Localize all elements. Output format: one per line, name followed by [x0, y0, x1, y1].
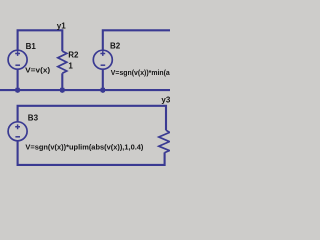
B2 minus sign	[101, 64, 106, 66]
svg-text:y1: y1	[57, 21, 66, 30]
bv source B2 circle	[93, 50, 112, 69]
wire: R2 bottom stub	[61, 73, 63, 93]
B2 plus sign	[100, 51, 105, 56]
wire: B1 bottom stub	[17, 69, 19, 93]
B1 plus sign	[15, 51, 20, 56]
wire: ground rail	[0, 89, 172, 91]
B3 minus sign	[15, 136, 20, 138]
svg-text:1: 1	[68, 62, 73, 71]
junction dot B2/ground rail	[101, 88, 105, 92]
svg-text:B2: B2	[110, 42, 121, 51]
junction dot R2/ground rail	[60, 88, 64, 92]
svg-text:V=sgn(v(x))*min(a: V=sgn(v(x))*min(a	[111, 68, 170, 77]
svg-text:B3: B3	[28, 114, 39, 123]
svg-text:B1: B1	[26, 42, 37, 51]
bv source B1 circle	[8, 50, 27, 69]
resistor bottom-right zigzag	[159, 130, 170, 152]
svg-text:V=sgn(v(x))*uplim(abs(v(x)),1,: V=sgn(v(x))*uplim(abs(v(x)),1,0.4)	[25, 143, 143, 152]
svg-text:R2: R2	[68, 51, 79, 60]
resistor R2 zigzag	[58, 51, 67, 73]
wire: bottom loop top rail	[18, 106, 166, 130]
wire: bottom loop bottom rail	[18, 141, 165, 165]
wire: net y1 top-left horizontal with B1 and R2 drops	[18, 30, 63, 51]
bv source B3 circle	[8, 122, 27, 141]
wire: top-right net horizontal with B2 top stub	[103, 30, 172, 50]
B3 plus sign	[15, 124, 20, 129]
wire: B2 bottom stub	[102, 69, 104, 93]
junction dot B1/ground rail	[15, 88, 19, 92]
svg-text:y3: y3	[161, 96, 170, 105]
svg-text:V=v(x): V=v(x)	[25, 65, 51, 74]
B1 minus sign	[15, 64, 20, 66]
